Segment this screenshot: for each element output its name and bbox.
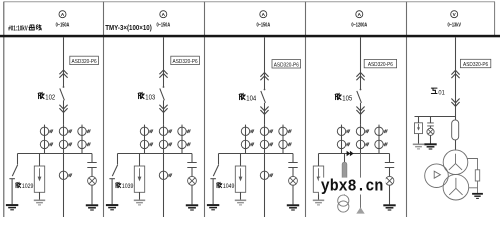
voltage transformer (2 windings)	[338, 195, 349, 212]
circuit breaker label 欣105	[335, 93, 352, 102]
svg-text:0~150A: 0~150A	[156, 22, 170, 28]
damping resistor	[475, 170, 479, 181]
wire to surge arrester	[139, 154, 141, 167]
svg-text:0~1200A: 0~1200A	[351, 22, 367, 28]
svg-text:0~13kV: 0~13kV	[447, 22, 461, 28]
circuit breaker 欣105	[357, 89, 362, 125]
junction wire	[18, 153, 93, 155]
earthing switch 欣1049	[210, 154, 218, 205]
multifunction meter ASD320-P6 label	[460, 59, 490, 68]
panel 4 incoming: feeder wire from busbar	[360, 37, 362, 89]
ground (earthing switch)	[207, 205, 219, 210]
svg-text:1039: 1039	[122, 184, 134, 191]
ground (indicator)	[424, 144, 436, 149]
fuse F1	[342, 162, 347, 181]
indicator lamp	[88, 176, 97, 185]
current transformers (3 phase, 2 cores)	[241, 127, 254, 135]
circuit breaker 欣103	[160, 86, 165, 125]
ground (indicator)	[287, 205, 299, 210]
ground (indicator)	[383, 205, 395, 210]
CT (cable core)	[260, 171, 273, 179]
ground (indicator)	[86, 205, 98, 210]
coupling capacitor	[87, 163, 96, 168]
CT phase wires	[45, 125, 83, 154]
ground (earthing switch)	[106, 205, 118, 210]
outgoing cable wire	[163, 154, 165, 218]
coupling capacitor	[288, 163, 297, 168]
ground (arrester)	[235, 200, 246, 205]
wire to live-line indicator	[91, 154, 93, 163]
indicator lamp	[427, 128, 434, 135]
meter A 0~150A	[256, 11, 270, 28]
svg-text:ASD320-P6: ASD320-P6	[274, 62, 299, 68]
ground (PT secondary)	[472, 194, 483, 199]
svg-text:102: 102	[45, 94, 55, 102]
CT phase wires	[145, 125, 183, 154]
svg-text:ybx8.cn: ybx8.cn	[321, 177, 384, 196]
junction wire	[319, 153, 390, 155]
outgoing cable wire	[264, 154, 266, 218]
earthing switch label 欣1029	[14, 181, 35, 189]
svg-text:103: 103	[145, 94, 155, 102]
CT (cable core)	[59, 171, 72, 179]
voltage transformer tertiary (Y)	[443, 174, 469, 200]
current transformers (3 phase, 2 cores)	[140, 127, 153, 135]
svg-text:104: 104	[246, 95, 256, 103]
CT phase wires	[246, 125, 284, 154]
svg-text:#01:10kV: #01:10kV	[8, 26, 27, 33]
svg-text:A: A	[262, 12, 266, 17]
drawout contact (lower)	[356, 107, 364, 115]
wire to surge arrester	[318, 154, 320, 167]
wire to live-line indicator	[191, 154, 193, 163]
drawout contact (lower)	[159, 105, 167, 113]
svg-text:A: A	[358, 12, 362, 17]
earthing switch 欣1029	[9, 154, 17, 205]
outgoing cable wire	[63, 154, 65, 218]
multifunction meter ASD320-P6 label	[272, 60, 301, 69]
svg-text:1029: 1029	[22, 184, 34, 191]
current transformers (3 phase, 2 cores)	[40, 127, 53, 135]
border frame	[4, 1, 496, 3]
current transformers (3 phase, 2 cores)	[337, 127, 350, 135]
svg-text:ASD320-P6: ASD320-P6	[368, 62, 393, 68]
voltage transformer secondary (delta)	[425, 164, 449, 188]
svg-text:ASD320-P6: ASD320-P6	[72, 59, 97, 65]
drawout contact (lower)	[451, 99, 459, 107]
surge arrester	[34, 166, 44, 192]
svg-text:ASD320-P6: ASD320-P6	[173, 59, 198, 65]
CT phase wires	[342, 125, 380, 154]
svg-text:0~150A: 0~150A	[56, 22, 70, 28]
junction wire	[415, 116, 456, 118]
circuit breaker 欣104	[261, 89, 266, 125]
panel 2: feeder wire from busbar	[163, 37, 165, 87]
meter A 0~150A	[156, 11, 170, 28]
wire to surge arrester	[418, 117, 420, 144]
PT fuse	[452, 120, 459, 140]
10kV busbar	[0, 35, 500, 38]
CT (cable core)	[159, 171, 172, 179]
coupling capacitor	[385, 163, 394, 168]
drawout contact (upper)	[260, 73, 268, 81]
ground (earthing switch)	[6, 205, 18, 210]
earthing switch 欣1039	[109, 154, 117, 205]
coupling capacitor	[427, 123, 434, 126]
wire to surge arrester	[39, 154, 41, 167]
wire to live-line indicator	[292, 154, 294, 163]
surge arrester	[313, 166, 323, 192]
ground (indicator)	[186, 205, 198, 210]
meter A 0~150A	[56, 11, 70, 28]
wire to indicator	[430, 117, 432, 144]
panel 3: feeder wire from busbar	[264, 37, 266, 89]
panel 5 (PT cubicle): wire from busbar	[455, 37, 457, 120]
circuit breaker label 欣102	[38, 92, 55, 101]
svg-text:01: 01	[438, 89, 445, 97]
meter A 0~1200A	[351, 11, 367, 28]
coupling capacitor	[187, 163, 196, 168]
multifunction meter ASD320-P6 label	[70, 56, 99, 65]
junction wire	[219, 153, 294, 155]
multifunction meter ASD320-P6 label	[171, 56, 200, 65]
earthing switch label 欣1039	[114, 181, 135, 189]
multifunction meter ASD320-P6 label	[364, 59, 396, 68]
drawout contact (upper)	[356, 73, 364, 81]
wire to surge arrester	[240, 154, 242, 167]
ground (arrester)	[313, 200, 324, 205]
surge arrester	[235, 166, 245, 192]
indicator lamp	[385, 176, 394, 185]
junction wire	[118, 153, 193, 155]
wire to metering PT	[344, 154, 346, 196]
ground (arrester)	[413, 144, 424, 149]
watermark	[319, 178, 386, 195]
earthing switch label 欣1049	[215, 181, 236, 189]
incoming cable wire	[360, 154, 362, 212]
drawout arrow on junction	[347, 151, 354, 157]
svg-text:TMY-3×(100×10): TMY-3×(100×10)	[105, 25, 151, 32]
indicator lamp	[289, 176, 298, 185]
ground (arrester)	[134, 200, 145, 205]
drawout contact (upper)	[451, 70, 459, 78]
drawout contact (lower)	[59, 105, 67, 113]
panel 1: feeder wire from busbar	[63, 37, 65, 87]
circuit breaker label 欣104	[239, 93, 256, 102]
meter V 0~13kV	[447, 11, 461, 28]
svg-text:ASD320-P6: ASD320-P6	[463, 62, 488, 68]
indicator lamp	[188, 176, 197, 185]
svg-text:A: A	[162, 12, 166, 17]
svg-text:A: A	[61, 12, 65, 17]
drawout contact (lower)	[260, 107, 268, 115]
drawout contact (upper)	[59, 70, 67, 78]
wire to live-line indicator	[389, 154, 391, 163]
drawout contact (upper)	[159, 70, 167, 78]
circuit breaker label 欣103	[138, 92, 155, 101]
surge arrester	[415, 123, 423, 134]
svg-text:V: V	[453, 12, 457, 17]
PT cubicle label 互01	[431, 88, 437, 93]
ground (arrester)	[34, 200, 45, 205]
busbar name label	[8, 25, 41, 33]
svg-text:105: 105	[342, 95, 352, 103]
wire to damping resistor	[467, 159, 477, 194]
svg-text:1049: 1049	[223, 184, 235, 191]
svg-text:0~150A: 0~150A	[256, 22, 270, 28]
voltage transformer primary (Y)	[443, 150, 468, 175]
surge arrester	[134, 166, 144, 192]
circuit breaker 欣102	[60, 86, 65, 125]
cable termination	[356, 207, 364, 213]
